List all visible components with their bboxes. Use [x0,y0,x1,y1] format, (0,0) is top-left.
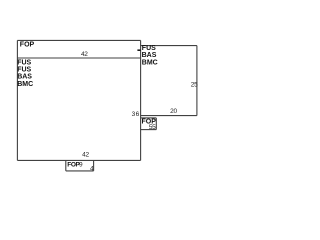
main building right wall [140,40,142,160]
main building top wall [17,39,140,41]
svg-text:36: 36 [132,111,140,118]
svg-text:BAS: BAS [17,74,32,81]
svg-text:20: 20 [170,108,177,115]
svg-text:BAS: BAS [142,52,157,59]
right wing right wall [196,46,198,116]
side porch right wall [155,118,157,130]
svg-text:55: 55 [149,124,156,131]
tick mark at right wing top-left [137,49,140,51]
svg-text:9: 9 [79,162,83,169]
svg-text:FUS: FUS [17,67,31,74]
svg-text:BMC: BMC [17,81,33,88]
svg-text:FUS: FUS [17,60,31,67]
main building left wall [16,40,18,160]
bottom porch left wall [65,160,67,171]
side porch top wall [141,117,157,119]
right wing top wall [141,45,197,47]
svg-text:42: 42 [82,151,89,158]
porch divider wall [17,57,140,59]
svg-text:FOP: FOP [20,42,35,49]
svg-text:42: 42 [81,51,88,58]
svg-text:25: 25 [191,81,198,88]
bottom porch right wall [93,160,95,171]
bottom porch bottom wall [66,170,94,172]
main building bottom wall [17,159,140,161]
right wing bottom wall [141,115,197,117]
side porch bottom wall [141,129,157,131]
svg-text:BMC: BMC [142,59,158,66]
